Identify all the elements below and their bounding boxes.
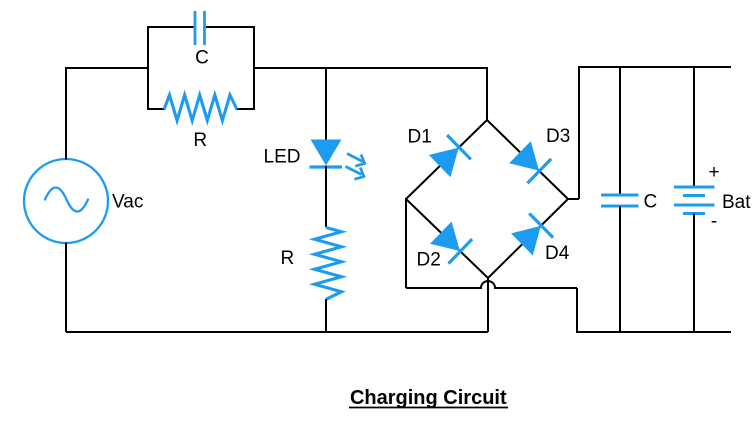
svg-text:Bat: Bat — [722, 192, 751, 213]
svg-text:C: C — [644, 192, 658, 213]
svg-text:-: - — [711, 211, 717, 232]
wire battery bottom — [693, 214, 695, 333]
LED D5 cathode bar — [310, 165, 343, 168]
bridge side bottom-right — [488, 199, 568, 278]
RC box left edge — [147, 27, 149, 109]
wire riser right vertical — [578, 67, 580, 199]
svg-text:C: C — [195, 48, 209, 69]
wire resistor to bottom rail — [325, 299, 327, 332]
diode D3 — [508, 140, 551, 183]
bridge side top-right — [487, 120, 568, 199]
battery Bat plate 4 short — [683, 212, 705, 215]
wire filter cap top — [619, 67, 621, 195]
svg-text:D1: D1 — [408, 127, 432, 148]
wire bridge right to riser — [568, 198, 579, 200]
filter capacitor C plate bottom — [601, 205, 639, 208]
wire top-left horizontal — [66, 67, 148, 69]
battery Bat plate 1 long — [674, 186, 715, 189]
RC box top edge right segment — [206, 26, 255, 28]
wire top-right rail — [578, 66, 731, 68]
wire LED branch upper — [325, 68, 327, 140]
svg-text:D3: D3 — [546, 126, 570, 147]
wire bottom-right rail — [576, 331, 731, 333]
svg-text:R: R — [281, 248, 295, 269]
diode D2 — [429, 220, 472, 263]
svg-text:D4: D4 — [545, 243, 570, 264]
wire negative return drop — [576, 288, 578, 332]
RC box bottom edge right segment — [236, 108, 255, 110]
svg-text:R: R — [193, 130, 207, 151]
wire bridge left drop — [405, 198, 407, 288]
bridge side top-left — [406, 120, 487, 199]
LED emission arrow 2 — [346, 167, 364, 180]
battery Bat plate 2 short — [683, 194, 705, 197]
bridge side bottom-left — [406, 199, 488, 278]
wire top rail box to bridge — [254, 67, 487, 69]
RC box top edge left segment — [147, 26, 194, 28]
LED emission arrow 1 — [347, 154, 365, 167]
wire Vac bottom — [65, 243, 67, 333]
resistor R vertical zigzag — [315, 228, 342, 300]
capacitor C plate right — [203, 11, 206, 45]
capacitor C plate left — [194, 11, 197, 45]
wire LED to resistor — [325, 166, 327, 227]
diode D4 — [510, 213, 553, 256]
RC box right edge — [253, 27, 255, 109]
wire filter cap bottom — [619, 206, 621, 332]
AC source sine wave — [45, 188, 88, 212]
wire Vac top to top rail — [65, 67, 67, 160]
LED D5 triangle — [311, 140, 342, 166]
RC box bottom edge left segment — [147, 108, 165, 110]
svg-text:+: + — [708, 162, 719, 183]
svg-text:LED: LED — [264, 147, 301, 168]
wire bottom rail — [66, 331, 488, 333]
wire negative return with hop — [406, 281, 577, 288]
title underline — [349, 407, 508, 409]
svg-text:Charging Circuit: Charging Circuit — [350, 387, 507, 409]
battery Bat plate 3 long — [674, 204, 715, 207]
resistor R horizontal zigzag — [164, 95, 237, 121]
wire bridge bottom drop — [487, 278, 489, 332]
AC source U1 circle — [24, 159, 108, 243]
svg-text:Vac: Vac — [112, 192, 143, 213]
diode D1 — [428, 135, 471, 178]
filter capacitor C plate top — [601, 194, 639, 197]
wire bridge top drop — [486, 67, 488, 120]
wire battery top — [693, 67, 695, 187]
svg-text:D2: D2 — [417, 250, 441, 271]
